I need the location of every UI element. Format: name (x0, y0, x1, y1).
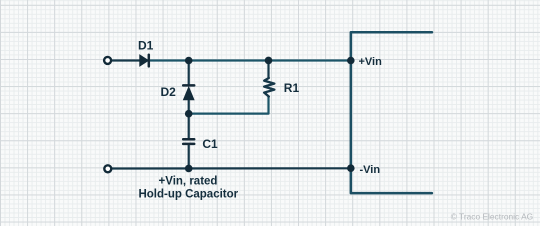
svg-text:-Vin: -Vin (360, 164, 381, 176)
svg-text:© Traco Electronic AG: © Traco Electronic AG (451, 212, 534, 222)
svg-text:D1: D1 (138, 39, 154, 53)
svg-text:+Vin, rated: +Vin, rated (159, 176, 218, 188)
svg-text:+Vin: +Vin (359, 56, 383, 68)
svg-text:D2: D2 (161, 85, 177, 99)
svg-text:R1: R1 (284, 81, 300, 95)
svg-text:Hold-up Capacitor: Hold-up Capacitor (138, 189, 238, 201)
svg-text:C1: C1 (202, 137, 218, 151)
